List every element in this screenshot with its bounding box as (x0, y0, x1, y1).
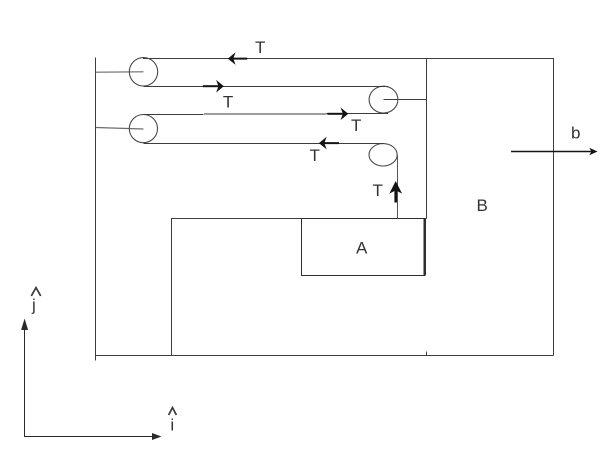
svg-text:T: T (310, 146, 320, 165)
svg-text:T: T (351, 116, 361, 135)
block A (302, 219, 425, 276)
arrow T right on third rope (327, 108, 348, 121)
arrow T left on fourth rope (319, 137, 339, 150)
svg-text:T: T (223, 93, 233, 112)
pulley P2 axle (384, 99, 427, 101)
svg-text:T: T (373, 181, 383, 200)
svg-text:A: A (356, 239, 368, 258)
svg-text:T: T (255, 38, 265, 57)
axis j arrow (21, 319, 28, 438)
wire right wall of cart B (553, 58, 555, 356)
arrow T right on second rope (203, 80, 224, 93)
pulley P2 (369, 86, 398, 113)
wire rope P1 bottom to P2 top (144, 86, 389, 88)
wire rope P4 down to block A (397, 155, 399, 219)
arrow T left on top rope (228, 52, 247, 65)
wire top rope anchored to right wall (143, 58, 554, 60)
pulley P4 (369, 144, 397, 166)
svg-text:B: B (477, 196, 488, 215)
svg-text:j: j (31, 296, 36, 315)
wire rope P3 bottom to P4 top (143, 143, 384, 145)
wire inner vertical wall (426, 58, 428, 219)
wire bottom of cart B (95, 355, 554, 357)
pulley P1 (129, 58, 157, 86)
wire rope P2 bottom to P3 top (143, 114, 388, 115)
svg-text:b: b (571, 124, 580, 143)
axis i arrow (25, 433, 162, 440)
wire left wall of cart B (95, 58, 97, 361)
svg-text:i: i (170, 416, 174, 435)
label i hat (169, 408, 177, 435)
wire platform left edge (171, 219, 173, 356)
wire platform top (171, 218, 427, 220)
pulley P3 axle (96, 128, 144, 130)
pulley P3 (129, 115, 157, 143)
pulley P1 axle (96, 71, 144, 73)
arrow T up on vertical rope (389, 181, 402, 203)
wire small tick on floor (426, 352, 428, 356)
arrow b acceleration (511, 148, 598, 156)
label j hat (31, 288, 41, 315)
